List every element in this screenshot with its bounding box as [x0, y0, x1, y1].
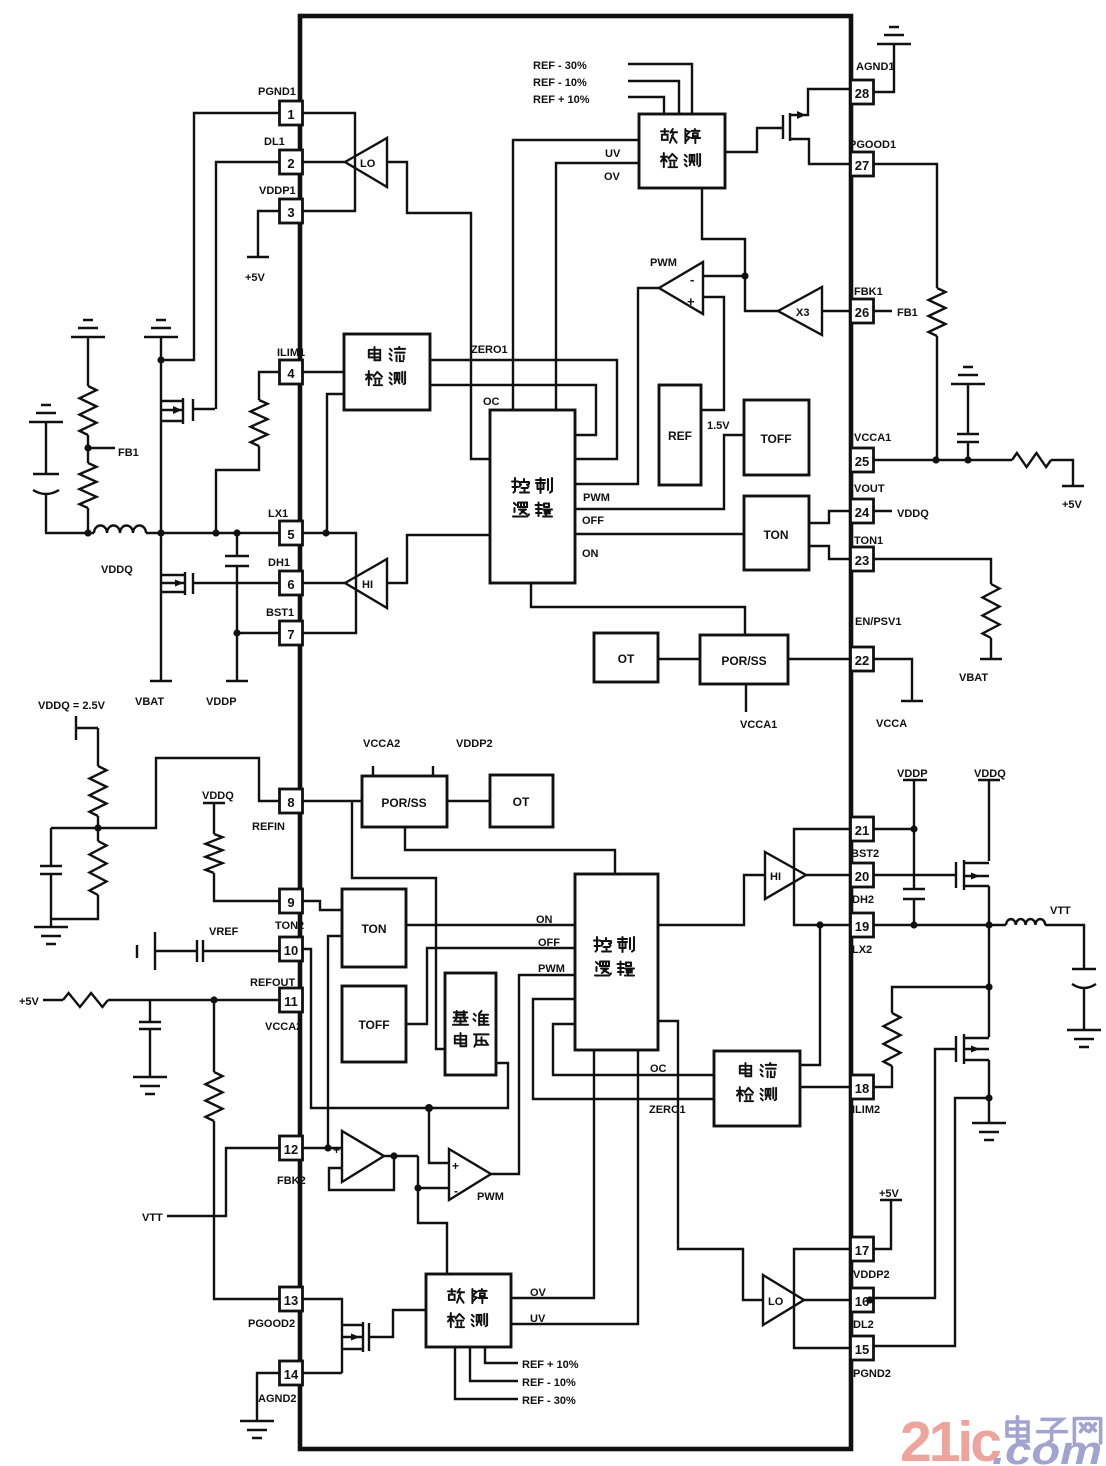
wire OV ch2: [511, 1050, 594, 1299]
transistor Q2 low-side FET ch1: [161, 572, 279, 595]
block OT ch2: [490, 775, 553, 827]
capacitor C3 VCCA1: [957, 384, 979, 460]
wire A2 out to PWM2 minus: [418, 1156, 449, 1188]
svg-text:VDDP: VDDP: [897, 768, 928, 780]
wire FBK2 to TON2: [328, 936, 342, 1148]
wire pin2 to LO1 output: [303, 161, 345, 163]
svg-text:ILIM1: ILIM1: [277, 347, 305, 359]
svg-text:LX2: LX2: [852, 944, 872, 956]
transistor Q5 VTT low-side: [956, 1034, 989, 1064]
wire C5 to pin10: [203, 950, 280, 952]
svg-text:TOFF: TOFF: [358, 1018, 389, 1032]
svg-text:HI: HI: [362, 579, 373, 591]
block REF: [659, 385, 701, 485]
wire PWM2 output to control logic: [491, 975, 575, 1174]
buffer X3: [778, 287, 822, 335]
driver LO2: [763, 1275, 804, 1325]
junction Q4 source on LX2: [985, 921, 992, 928]
error amplifier A2: [342, 1131, 384, 1182]
wire UV ch1: [513, 140, 639, 410]
svg-text:VDDQ = 2.5V: VDDQ = 2.5V: [38, 700, 106, 712]
pin 9 TON2: [275, 889, 304, 932]
transistor Q3 PGOOD1: [783, 89, 851, 164]
pin 24 VOUT: [851, 483, 885, 523]
junction current-sense tap on LX1: [322, 529, 329, 536]
wire R9 to pin13: [214, 1121, 280, 1299]
VDDQ supply terminal right: [974, 768, 1006, 861]
wire pin22 to VCCA: [873, 659, 912, 701]
svg-text:18: 18: [855, 1081, 869, 1096]
svg-text:+5V: +5V: [1062, 499, 1083, 511]
wire POR/SS VCCA1 stub: [740, 684, 777, 731]
pin 3 VDDP1: [259, 185, 303, 223]
svg-text:ILIM2: ILIM2: [852, 1104, 880, 1116]
svg-text:PWM: PWM: [477, 1191, 504, 1203]
pin 10 REFOUT: [250, 937, 303, 989]
svg-text:TON2: TON2: [275, 920, 304, 932]
pin 14 AGND2: [258, 1361, 303, 1405]
svg-text:8: 8: [287, 795, 294, 810]
resistor R1 FB1 upper: [80, 386, 97, 435]
svg-text:HI: HI: [770, 871, 781, 883]
svg-text:FBK2: FBK2: [277, 1175, 306, 1187]
svg-text:7: 7: [287, 627, 294, 642]
wire control logic to POR/SS: [531, 583, 745, 635]
svg-text:10: 10: [284, 943, 298, 958]
wire fault output to Q3 gate: [725, 128, 783, 152]
svg-text:21ic: 21ic: [900, 1410, 1001, 1466]
pin 8 REFIN: [252, 789, 303, 833]
transistor Q4 VTT high-side: [956, 860, 989, 890]
wire OFF ch1: [575, 435, 744, 527]
resistor R11 VCCA1 feed: [1012, 453, 1051, 467]
pin 22 EN/PSV1: [851, 616, 902, 671]
wire PWM1 plus input from REF 1.5V: [701, 297, 730, 432]
wire to ground G5: [50, 919, 52, 927]
junction REFIN node: [94, 824, 101, 831]
wire current sense ch2 to LX2: [800, 925, 820, 1065]
resistor R5 TON1: [983, 584, 1000, 638]
svg-text:PWM: PWM: [650, 257, 677, 269]
svg-text:REF - 30%: REF - 30%: [522, 1395, 576, 1407]
junction pin7 VDDP node: [233, 629, 240, 636]
ground VCCA2 cap: [133, 1077, 167, 1094]
wire PGND2 to pin15: [873, 1098, 989, 1346]
svg-text:LX1: LX1: [268, 508, 288, 520]
block POR/SS ch2: [362, 738, 493, 827]
wire POR/SS2 to OT2: [447, 800, 490, 802]
svg-text:PGND2: PGND2: [853, 1368, 891, 1380]
wire pin13 to Q6: [303, 1299, 342, 1325]
ground VCCA1 cap: [951, 367, 985, 384]
wire VDDP supply drop: [236, 633, 238, 681]
svg-text:+: +: [687, 294, 695, 309]
svg-text:OT: OT: [618, 652, 635, 666]
+5V supply terminal right: [1062, 486, 1084, 511]
wire R5 to VBAT: [990, 638, 992, 659]
wire R4 to VCCA1 rail: [936, 336, 938, 460]
wire reference node to PWM2 plus: [429, 1108, 449, 1163]
svg-text:4: 4: [287, 366, 295, 381]
svg-text:REF: REF: [668, 429, 692, 443]
wire TON1 to pin23: [809, 546, 851, 559]
svg-text:VCCA1: VCCA1: [740, 719, 777, 731]
wire PWM1 output to control logic: [575, 288, 659, 484]
watermark logo 电子网: [1007, 1417, 1101, 1443]
svg-text:OFF: OFF: [538, 937, 560, 949]
svg-text:2: 2: [287, 156, 294, 171]
wire POR/SS to pin22: [788, 658, 851, 660]
svg-text:POR/SS: POR/SS: [721, 654, 766, 668]
pin 11 VCCA2: [265, 988, 303, 1033]
wire PWM2 node to fault detect ch2: [418, 1188, 447, 1274]
wire pin10 REFOUT to reference node: [303, 949, 508, 1108]
resistor R2 FB1 lower: [80, 463, 97, 508]
junction ILIM1 return on rail: [212, 529, 219, 536]
wire control logic to HI2: [658, 875, 765, 925]
svg-text:VDDP2: VDDP2: [853, 1269, 890, 1281]
VBAT supply terminal left: [135, 681, 172, 708]
svg-text:27: 27: [855, 158, 869, 173]
junction pin12 node: [324, 1144, 331, 1151]
block fault detect ch1: [639, 114, 725, 188]
svg-text:OC: OC: [483, 396, 500, 408]
svg-text:+: +: [333, 1143, 340, 1157]
junction ILIM2 resistor tap: [985, 983, 992, 990]
wire Q5 source to ground: [988, 1060, 990, 1123]
svg-text:DL2: DL2: [853, 1319, 874, 1331]
svg-text:BST2: BST2: [851, 848, 879, 860]
wire HI1 input from control logic: [387, 535, 490, 583]
wire R8 to pin9: [214, 873, 280, 901]
wire LX2 rail: [873, 925, 1084, 969]
svg-text:FB1: FB1: [118, 447, 139, 459]
driver LO1: [345, 138, 387, 187]
svg-text:DH1: DH1: [268, 557, 290, 569]
svg-text:-: -: [454, 1184, 458, 1198]
wire ZERO ch1: [430, 344, 617, 459]
wire pins17-15 bracket: [794, 1249, 851, 1348]
wire VCCA1 rail: [873, 459, 1012, 461]
svg-text:UV: UV: [605, 148, 621, 160]
wire VDDQ output rail to pin5: [45, 532, 279, 534]
VDDQ supply terminal mid: [202, 790, 234, 834]
wire ZERO ch2: [533, 999, 714, 1116]
wire HI2 to pin20: [806, 874, 851, 876]
pin 26 FBK1: [851, 286, 883, 323]
svg-text:+5V: +5V: [879, 1188, 900, 1200]
wire pin14 to AGND2 ground: [257, 1373, 279, 1421]
svg-text:ON: ON: [582, 548, 599, 560]
battery VREF: [137, 926, 239, 970]
svg-text:REF + 10%: REF + 10%: [522, 1359, 579, 1371]
svg-text:VBAT: VBAT: [959, 672, 988, 684]
svg-text:REF + 10%: REF + 10%: [533, 94, 590, 106]
wire Q4 to Q5: [988, 886, 990, 1037]
wire LO1 input from control logic: [387, 162, 490, 459]
wire pin6 to HI1 output: [303, 582, 345, 584]
junction VDDP/BST2 node: [910, 825, 917, 832]
svg-text:DH2: DH2: [852, 894, 874, 906]
wire ON ch1: [575, 534, 744, 560]
pin 18 ILIM2: [851, 1075, 881, 1116]
wire pin3 to +5V: [258, 211, 279, 257]
VDDQ=2.5V terminal: [76, 716, 98, 740]
wire POR/SS2 to control logic ch2: [405, 827, 615, 874]
wire pin1 to ground node: [164, 113, 280, 360]
pin 15 PGND2: [851, 1336, 891, 1380]
wire pin7 external: [237, 632, 279, 634]
svg-text:OFF: OFF: [582, 515, 604, 527]
svg-text:1: 1: [287, 107, 294, 122]
svg-text:VCCA2: VCCA2: [265, 1021, 302, 1033]
svg-text:11: 11: [284, 994, 298, 1009]
svg-text:OV: OV: [604, 171, 621, 183]
svg-text:20: 20: [855, 869, 869, 884]
pin 7 BST1: [266, 607, 303, 645]
svg-text:12: 12: [284, 1142, 298, 1157]
block TON ch1: [744, 496, 809, 570]
svg-text:17: 17: [855, 1243, 869, 1258]
svg-text:23: 23: [855, 553, 869, 568]
svg-text:VREF: VREF: [209, 926, 239, 938]
svg-text:AGND1: AGND1: [856, 61, 895, 73]
wire pin24 VDDQ stub: [873, 508, 929, 520]
svg-text:X3: X3: [796, 307, 809, 319]
wire OC ch2: [553, 1024, 714, 1075]
wire R6 to R7: [97, 816, 99, 841]
block TOFF ch2: [342, 986, 406, 1062]
svg-text:PWM: PWM: [583, 492, 610, 504]
ground AGND2: [240, 1421, 274, 1438]
svg-text:5: 5: [287, 527, 294, 542]
svg-text:AGND2: AGND2: [258, 1393, 297, 1405]
svg-text:VCCA2: VCCA2: [363, 738, 400, 750]
svg-text:+: +: [452, 1159, 459, 1173]
transistor Q1 high-side FET ch1: [161, 398, 215, 424]
junction PWM2 minus node: [414, 1184, 421, 1191]
wire current-sense to LX1: [327, 394, 344, 533]
wire ON ch2: [406, 914, 575, 926]
svg-text:21: 21: [855, 823, 869, 838]
pin 2 DL1: [264, 136, 303, 174]
wire battery to C5: [155, 950, 197, 952]
svg-text:ZERO1: ZERO1: [649, 1104, 686, 1116]
svg-text:TON: TON: [361, 922, 386, 936]
block current sense ch2: [714, 1051, 800, 1126]
wire R7 to ground: [51, 895, 98, 919]
svg-text:19: 19: [855, 919, 869, 934]
svg-text:VDDP2: VDDP2: [456, 738, 493, 750]
resistor R10 ILIM2: [884, 1013, 901, 1066]
wire R10 to pin18: [873, 1066, 892, 1087]
wire Q5 gate to pin16: [873, 1049, 956, 1298]
svg-text:UV: UV: [530, 1313, 546, 1325]
junction BST cap on rail: [233, 529, 240, 536]
resistor R7 REFIN divider lower: [90, 841, 107, 895]
REF-30% tap: [533, 60, 692, 114]
svg-text:POR/SS: POR/SS: [381, 796, 426, 810]
wire pin20 to Q4 gate: [873, 874, 956, 876]
VDDP supply terminal right: [897, 768, 928, 829]
wire OC ch1: [430, 385, 596, 435]
comparator PWM1: [650, 257, 703, 314]
wire LO2 to pin16: [804, 1299, 851, 1301]
capacitor C5 series VREF: [197, 940, 203, 962]
node FB1: [84, 444, 138, 459]
svg-text:1.5V: 1.5V: [707, 420, 730, 432]
wire TON1 to pin24: [809, 511, 851, 523]
wire R3 to rail: [216, 446, 259, 533]
wire OV ch1: [556, 163, 639, 410]
wire +5V rail to pin11: [108, 999, 280, 1001]
pin 17 VDDP2: [851, 1237, 890, 1281]
svg-text:28: 28: [855, 86, 869, 101]
junction A2 output: [390, 1152, 397, 1159]
svg-text:TON1: TON1: [854, 535, 883, 547]
block reference voltage ch2: [445, 973, 496, 1075]
transistor Q6 PGOOD2: [342, 1310, 426, 1373]
inductor L1: [94, 526, 146, 533]
svg-text:24: 24: [855, 505, 870, 520]
pin 16 DL2: [851, 1288, 874, 1331]
pin 19 LX2: [851, 913, 874, 956]
resistor R3 ILIM1: [251, 400, 268, 446]
block control logic ch2: [575, 874, 658, 1050]
pin 20 DH2: [851, 863, 875, 906]
ground AGND1: [877, 27, 911, 44]
ground Q5 source: [972, 1123, 1006, 1140]
driver HI1: [345, 559, 387, 608]
svg-text:6: 6: [287, 577, 294, 592]
wire fault bottom to X3/PWM node: [702, 188, 778, 311]
wire pin28 to AGND1 ground: [873, 44, 894, 92]
junction ILIM2 sense on bracket: [816, 921, 823, 928]
resistor R4 PGOOD1 pull-up: [929, 288, 946, 336]
svg-text:VTT: VTT: [142, 1212, 163, 1224]
junction C7 on LX2: [910, 921, 917, 928]
svg-text:26: 26: [855, 305, 869, 320]
capacitor C2 bootstrap ch1: [225, 533, 249, 633]
REF-10% tap: [533, 77, 679, 114]
svg-text:PWM: PWM: [538, 963, 565, 975]
comparator PWM2: [449, 1149, 504, 1203]
pin 25 VCCA1: [851, 432, 892, 472]
svg-text:OT: OT: [513, 795, 530, 809]
junction reference node: [425, 1104, 433, 1112]
wire R2 to VDDQ rail: [87, 508, 89, 533]
ground FB1 divider top: [71, 320, 105, 337]
svg-text:+5V: +5V: [19, 996, 40, 1008]
svg-text:13: 13: [284, 1293, 298, 1308]
wire OFF ch2: [406, 937, 575, 1024]
junction PGND2 tap: [985, 1094, 992, 1101]
junction C3 on VCCA1 rail: [964, 456, 971, 463]
junction Q1/Q2 on rail: [157, 529, 164, 536]
svg-text:FB1: FB1: [897, 307, 918, 319]
resistor R6 REFIN divider upper: [90, 766, 107, 816]
block TOFF ch1: [744, 400, 809, 475]
pin 27 PGOOD1: [849, 139, 896, 176]
svg-text:VDDQ: VDDQ: [101, 564, 133, 576]
wire pin4 ILIM1 to R3: [259, 372, 279, 400]
block TON ch2: [342, 889, 406, 967]
inductor L2 VTT: [1006, 919, 1045, 925]
svg-text:TON: TON: [763, 528, 788, 542]
wire terminal to R6: [97, 728, 99, 766]
capacitor C6 VCCA2: [139, 1000, 161, 1077]
wire pin9 to TON2: [303, 901, 342, 910]
wire UV ch2: [511, 1050, 638, 1325]
svg-text:OC: OC: [650, 1063, 667, 1075]
wire pins21-19 bracket: [794, 829, 851, 925]
junction PWM minus node: [741, 272, 748, 279]
wire OT to POR/SS: [658, 658, 700, 660]
ground ch1 high-side: [144, 320, 178, 337]
+5V supply terminal right bottom: [879, 1188, 902, 1200]
block control logic ch1: [490, 410, 575, 583]
VCCA supply terminal: [876, 701, 923, 730]
wire pin26 FB1 stub: [873, 307, 918, 319]
svg-text:VCCA1: VCCA1: [854, 432, 891, 444]
svg-text:14: 14: [284, 1367, 299, 1382]
wire R1 to R2: [87, 435, 89, 463]
wire pin12 to error amp: [303, 1143, 342, 1157]
svg-text:REF - 10%: REF - 10%: [522, 1377, 576, 1389]
capacitor C1 output ch1: [33, 422, 59, 533]
+5V terminal bottom-left: [19, 996, 63, 1008]
REF+10% tap ch2: [485, 1347, 579, 1371]
svg-text:EN/PSV1: EN/PSV1: [855, 616, 901, 628]
wire pins5-7 bracket: [303, 533, 356, 633]
svg-text:ON: ON: [536, 914, 553, 926]
ground output cap far left: [29, 405, 63, 422]
wire A2 output: [384, 1155, 418, 1157]
svg-text:22: 22: [855, 653, 869, 668]
wire current sense ch2 to pin18: [800, 1086, 851, 1088]
wire pin14 to Q6 source: [303, 1372, 342, 1374]
resistor R12 VCCA2 feed: [63, 993, 108, 1007]
svg-text:+5V: +5V: [245, 272, 266, 284]
wire REFIN node to pin8: [98, 758, 280, 828]
wire REFIN to reference block: [352, 801, 446, 1049]
svg-text:9: 9: [287, 895, 294, 910]
svg-text:REFIN: REFIN: [252, 821, 285, 833]
wire pin27 to pull-up R4: [873, 164, 937, 288]
svg-text:VBAT: VBAT: [135, 696, 164, 708]
pin 4 ILIM1: [277, 347, 305, 384]
junction FB1 divider on rail: [84, 529, 91, 536]
pin 23 TON1: [851, 535, 884, 571]
svg-text:REF - 30%: REF - 30%: [533, 60, 587, 72]
driver HI2: [765, 852, 806, 899]
wire pin8 to POR/SS2: [303, 800, 362, 802]
svg-text:VDDP: VDDP: [206, 696, 237, 708]
wire VTT feedback to pin12: [142, 1148, 280, 1224]
wire A2 feedback: [329, 1156, 394, 1190]
pin 1 PGND1: [258, 86, 303, 125]
REF-10% tap ch2: [470, 1347, 576, 1389]
block fault detect ch2: [426, 1274, 511, 1347]
watermark logo 21ic: [900, 1410, 1102, 1466]
wire DL1 pin2 to Q1 gate: [216, 162, 280, 409]
svg-text:ZERO1: ZERO1: [471, 344, 508, 356]
svg-text:25: 25: [855, 454, 869, 469]
svg-text:TOFF: TOFF: [760, 432, 791, 446]
svg-text:VDDQ: VDDQ: [974, 768, 1006, 780]
+5V supply terminal pin3: [245, 257, 269, 284]
svg-text:LO: LO: [360, 158, 376, 170]
